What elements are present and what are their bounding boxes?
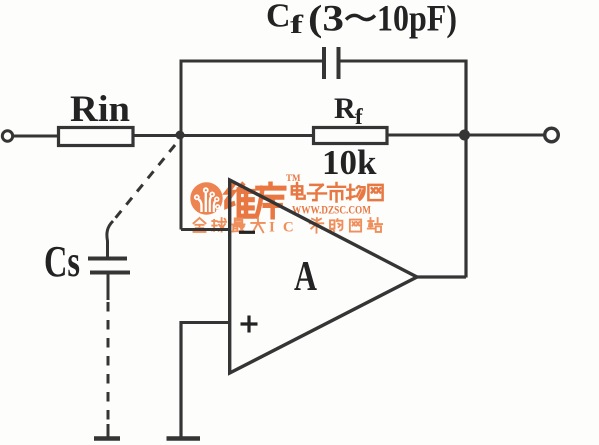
svg-text:(3: (3	[308, 0, 344, 40]
wire Rf to output	[387, 134, 544, 137]
logo circle	[190, 182, 222, 214]
ground (Cs)	[94, 436, 120, 441]
capacitor Cs bottom lead	[107, 274, 110, 300]
wire top right segment	[339, 60, 467, 63]
wire left vertical (node to inverting input level)	[180, 63, 183, 230]
svg-text:A: A	[294, 254, 317, 300]
big brand chars	[226, 184, 284, 217]
wire left vertical to ground	[179, 321, 182, 437]
wire inverting input	[181, 228, 230, 231]
slogan chars 全球最大IC采购网站	[194, 218, 265, 232]
watermark logo + text	[190, 173, 382, 236]
svg-text:f: f	[290, 10, 303, 39]
minus sign (inverting input)	[239, 231, 255, 234]
small brand chars 电子市场网	[292, 183, 383, 202]
ground (op-amp input)	[167, 436, 201, 441]
node junction at output	[459, 130, 470, 141]
svg-text:WWW.DZSC.COM: WWW.DZSC.COM	[292, 205, 371, 217]
input terminal	[2, 131, 12, 141]
wire non-inverting input	[181, 321, 230, 324]
svg-text:10pF): 10pF)	[377, 0, 457, 40]
wire input to Rin	[13, 135, 59, 138]
capacitor Cs lead (curved)	[107, 221, 113, 257]
wire Rin to Rf	[133, 134, 314, 137]
dashed stray path from node	[113, 145, 175, 221]
svg-text:Cs: Cs	[44, 237, 80, 286]
wire op-amp output	[417, 275, 466, 278]
resistor Rin	[59, 128, 134, 146]
svg-text:R: R	[334, 92, 356, 125]
capacitor Cs plates	[88, 257, 127, 261]
plus sign (non-inverting input)	[241, 322, 258, 325]
capacitor Cf	[322, 47, 326, 79]
resistor Rf	[314, 128, 388, 144]
svg-text:10k: 10k	[322, 143, 377, 182]
op-amp A	[230, 180, 417, 373]
svg-text:f: f	[355, 104, 363, 129]
wire right vertical	[464, 60, 467, 278]
svg-text:Rin: Rin	[70, 89, 130, 130]
wire top left segment	[180, 60, 325, 63]
svg-text:C: C	[266, 0, 291, 35]
svg-text:TM: TM	[286, 173, 301, 183]
svg-text:IC: IC	[269, 220, 302, 236]
node junction at inverting input	[176, 131, 185, 140]
output terminal	[545, 128, 559, 142]
dashed wire Cs to ground	[107, 302, 110, 424]
label Cf(3~10pF)	[266, 0, 457, 40]
